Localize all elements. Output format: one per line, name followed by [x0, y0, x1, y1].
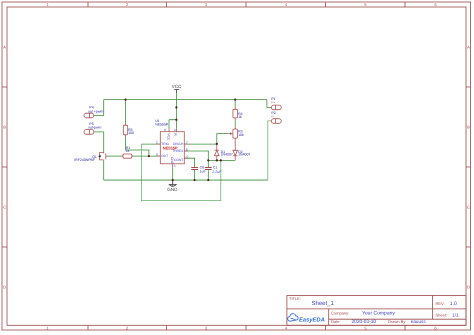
svg-text:4: 4 [174, 128, 176, 132]
svg-text:Sheet:: Sheet: [436, 312, 448, 317]
svg-text:A: A [3, 45, 6, 50]
wire THRES pin6 [184, 151, 208, 160]
wire C6 bottom [194, 170, 196, 180]
op-amp U1 NE555P [155, 119, 188, 168]
svg-text:B: B [467, 125, 470, 130]
potentiometer R3 [228, 127, 244, 151]
TITLE BLOCK [287, 296, 466, 326]
svg-text:D: D [3, 285, 6, 290]
resistor R1 [121, 146, 135, 158]
svg-text:out +pwm: out +pwm [88, 109, 103, 113]
wire THRES node [208, 159, 235, 161]
wire VCC top rail [104, 99, 267, 101]
resistor R5 [123, 123, 134, 137]
svg-text:6: 6 [186, 148, 188, 152]
ground GND [167, 180, 178, 192]
diode D1 1N4007 [215, 144, 233, 161]
wire TRIG pin2 [141, 143, 160, 145]
CIRCUIT [74, 84, 281, 200]
svg-text:2: 2 [156, 141, 158, 145]
svg-text:Date:: Date: [331, 319, 341, 324]
power flag VCC [172, 84, 182, 93]
node GND-C6 [194, 179, 196, 181]
svg-text:B: B [3, 125, 6, 130]
svg-text:eauuss: eauuss [411, 319, 427, 324]
svg-text:IRF240NPBF: IRF240NPBF [74, 158, 95, 162]
connector P2 [271, 111, 281, 123]
wire TRIG loop to THRES node [141, 144, 220, 201]
wire R3 wiper [217, 134, 229, 144]
svg-text:CONT: CONT [174, 158, 183, 162]
wire P5 to Q1 drain [94, 132, 104, 153]
junction node dots [124, 99, 236, 182]
svg-text:7: 7 [186, 140, 188, 144]
svg-text:1uF: 1uF [200, 169, 206, 173]
svg-text:VCC: VCC [166, 133, 170, 141]
connector P4 [84, 106, 103, 118]
connector P5 [84, 122, 102, 134]
svg-text:2.2uF: 2.2uF [211, 170, 222, 174]
svg-text:C: C [467, 205, 470, 210]
svg-text:10k: 10k [238, 133, 244, 137]
capacitor C1 [205, 166, 222, 174]
wire rail to P1 [267, 100, 272, 108]
svg-text:8: 8 [164, 128, 166, 132]
wire R5 bottom jog to OUT node [126, 137, 149, 156]
wire OUT pin3 to R1 [132, 155, 161, 157]
svg-text:EasyEDA: EasyEDA [299, 317, 325, 323]
node rail-R4 [234, 99, 236, 101]
node THRES-D1 [216, 159, 218, 161]
svg-text:A: A [467, 45, 470, 50]
node THRES-C1 [207, 159, 209, 161]
wire rail to P4 [94, 100, 104, 116]
svg-text:Drawn By:: Drawn By: [388, 319, 406, 324]
wire R4 top [234, 100, 236, 107]
wire R5 top [125, 100, 127, 123]
svg-text:Your Company: Your Company [362, 311, 395, 317]
svg-text:DISCH: DISCH [173, 142, 184, 146]
wire R4 to R3 [234, 120, 236, 126]
wire Q1 source down [103, 160, 105, 180]
capacitor C6 [191, 166, 205, 174]
wire C1 bottom [207, 170, 209, 180]
svg-text:THRES: THRES [172, 149, 184, 153]
node VCC drop a [175, 106, 177, 108]
svg-text:OUT: OUT [161, 154, 168, 158]
wire U1 pin1 to rail [172, 167, 174, 180]
node rail-R5 [124, 99, 126, 101]
svg-text:TITLE:: TITLE: [289, 296, 301, 301]
svg-text:VCC: VCC [172, 84, 182, 89]
wire C1 top [207, 160, 209, 167]
svg-text:out-pwm: out-pwm [88, 126, 102, 130]
svg-text:1.0: 1.0 [450, 301, 457, 307]
transistor Q1 [74, 153, 107, 162]
svg-text:GND: GND [167, 187, 178, 192]
svg-text:TRIG: TRIG [161, 142, 169, 146]
svg-text:NE555P: NE555P [155, 122, 169, 126]
wire GND bottom rail [104, 179, 268, 181]
svg-text:1: 1 [174, 164, 176, 168]
svg-text:1k: 1k [238, 115, 242, 119]
svg-text:D: D [467, 285, 470, 290]
svg-text:2020-03-10: 2020-03-10 [352, 319, 377, 325]
wire DISCH pin7 [184, 143, 217, 145]
wire U1 pin8 pin4 link [169, 120, 176, 129]
svg-text:P-: P- [271, 115, 274, 119]
node GND-U1 [172, 179, 174, 181]
svg-text:3: 3 [156, 153, 158, 157]
wire Q1 gate to R1 [107, 155, 123, 157]
svg-text:P+: P+ [271, 101, 275, 105]
wire CONT pin5 to C6 [184, 158, 194, 167]
node VCC drop b [175, 119, 177, 121]
node GND-C1 [207, 179, 209, 181]
svg-text:5: 5 [186, 155, 188, 159]
node OUT-R5 [148, 155, 150, 157]
node THRES-loop [220, 159, 222, 161]
resistor R4 [233, 107, 243, 120]
svg-text:Company:: Company: [331, 311, 349, 316]
svg-text:1/1: 1/1 [452, 312, 459, 317]
node DISCH-D1-wiper [216, 143, 218, 145]
svg-text:1k: 1k [126, 149, 130, 153]
svg-text:Sheet_1: Sheet_1 [312, 300, 335, 307]
svg-text:1N4007: 1N4007 [238, 152, 250, 156]
svg-text:REV:: REV: [436, 301, 445, 306]
wire VCC flag drop to U1 [175, 93, 177, 120]
connector P1 [271, 97, 281, 110]
wire P2 to rail [268, 121, 272, 180]
svg-text:100: 100 [128, 131, 134, 135]
svg-text:1N4007: 1N4007 [221, 152, 233, 156]
svg-text:C: C [3, 205, 6, 210]
diode D2 1N4007 [233, 150, 251, 161]
